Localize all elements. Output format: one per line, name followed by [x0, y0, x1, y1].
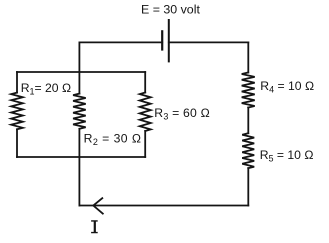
svg-text:R3 = 60 Ω: R3 = 60 Ω	[154, 106, 210, 122]
wire top-right segment	[169, 41, 249, 43]
resistor R4	[242, 73, 255, 108]
svg-text:R5 = 10 Ω: R5 = 10 Ω	[260, 148, 314, 164]
current arrow on bottom wire	[93, 198, 103, 213]
wire bottom	[79, 205, 248, 207]
svg-text:E = 30 volt: E = 30 volt	[141, 3, 200, 17]
resistor R2	[73, 94, 86, 129]
wire inner box right-edge top lead	[144, 72, 146, 93]
svg-text:R2 = 30 Ω: R2 = 30 Ω	[84, 131, 142, 147]
wire R2 bottom lead down to bottom wire	[78, 129, 80, 206]
svg-text:R4 = 10 Ω: R4 = 10 Ω	[260, 79, 314, 95]
wire inner box bottom edge	[17, 156, 145, 158]
resistor R3	[140, 93, 151, 132]
wire inner box left-edge bottom lead	[16, 129, 18, 157]
wire between R4 and R5	[247, 108, 249, 134]
wire inner box top edge	[17, 71, 145, 73]
wire inner box right-edge bottom lead	[144, 131, 146, 157]
svg-text:R1= 20 Ω: R1= 20 Ω	[21, 81, 71, 97]
battery E short plate	[161, 31, 163, 49]
label current I	[91, 220, 98, 233]
wire feed from battery down to R2	[78, 42, 80, 93]
wire right-edge top lead	[247, 42, 249, 72]
battery E long plate	[168, 20, 170, 61]
resistor R5	[242, 133, 254, 168]
wire inner box left-edge top lead	[16, 72, 18, 93]
resistor R1	[11, 93, 23, 130]
wire right-edge bottom lead	[247, 168, 249, 205]
wire top-left segment	[79, 41, 162, 43]
